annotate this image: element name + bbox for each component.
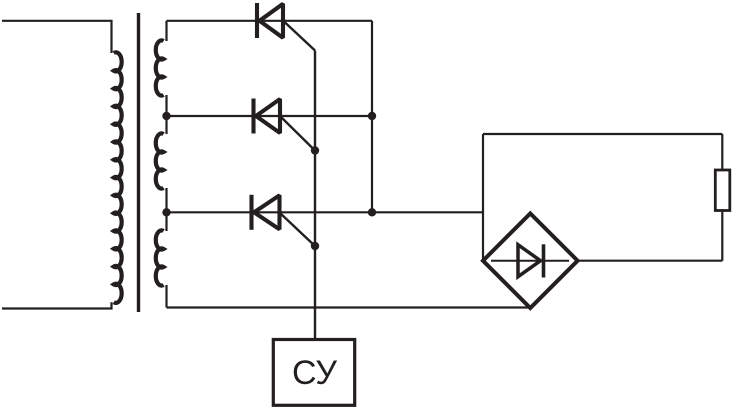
thyristor VS1 gate wire (285, 22, 316, 51)
secondary tap lead wire W2-W3 (165, 188, 167, 231)
load resistor R (715, 170, 730, 211)
junction dot secondary tap 1 (162, 112, 170, 120)
primary winding bottom lead wire (2, 302, 112, 308)
junction dot right vertical row2 (368, 112, 376, 120)
secondary winding section W1 coil (156, 40, 164, 95)
thyristor VS1 triangle (260, 4, 284, 38)
thyristor VS3 triangle (254, 195, 280, 229)
wire load right vertical (721, 134, 723, 261)
secondary winding bottom lead wire (165, 285, 167, 308)
primary winding top lead wire (2, 21, 112, 53)
wire load loop top (483, 133, 722, 135)
thyristor VS3 cathode bar (249, 195, 253, 230)
junction dot right vertical row3 (368, 208, 376, 216)
thyristor VS1 cathode bar (255, 3, 259, 38)
secondary winding section W2 coil (156, 133, 164, 188)
thyristor VS2 triangle (256, 99, 280, 133)
junction dot secondary tap 2 (162, 208, 170, 216)
thyristor VS3 gate wire (281, 214, 316, 247)
wire bridge left vertical (482, 134, 484, 261)
transformer core (137, 13, 140, 312)
secondary tap lead wire W1-W2 (165, 95, 167, 134)
bridge diode cathode bar (542, 244, 546, 277)
svg-text:СУ: СУ (292, 354, 337, 392)
secondary winding top lead wire (165, 21, 167, 41)
thyristor VS2 cathode bar (251, 99, 255, 134)
secondary winding section W3 coil (156, 230, 164, 285)
wire right vertical from top row down (371, 21, 373, 213)
bridge inner wire (491, 260, 569, 262)
junction dot gate bus VS3 (311, 242, 319, 250)
wire middle tap to thyristor VS2 row (167, 115, 373, 117)
bridge diode triangle (518, 245, 541, 277)
wire bottom rail to bridge bottom corner (167, 306, 531, 308)
wire top tap to thyristor VS1 row (167, 20, 373, 22)
primary winding L1 coil (114, 52, 122, 303)
wire load loop bottom (578, 260, 723, 262)
bridge rectifier diamond (483, 213, 578, 308)
junction dot gate bus VS2 (311, 146, 319, 154)
gate bus wire to control unit (314, 51, 316, 340)
thyristor VS2 gate wire (282, 118, 316, 151)
control unit box СУ (273, 340, 354, 406)
wire lower tap row through VS3 to bridge (167, 211, 484, 213)
